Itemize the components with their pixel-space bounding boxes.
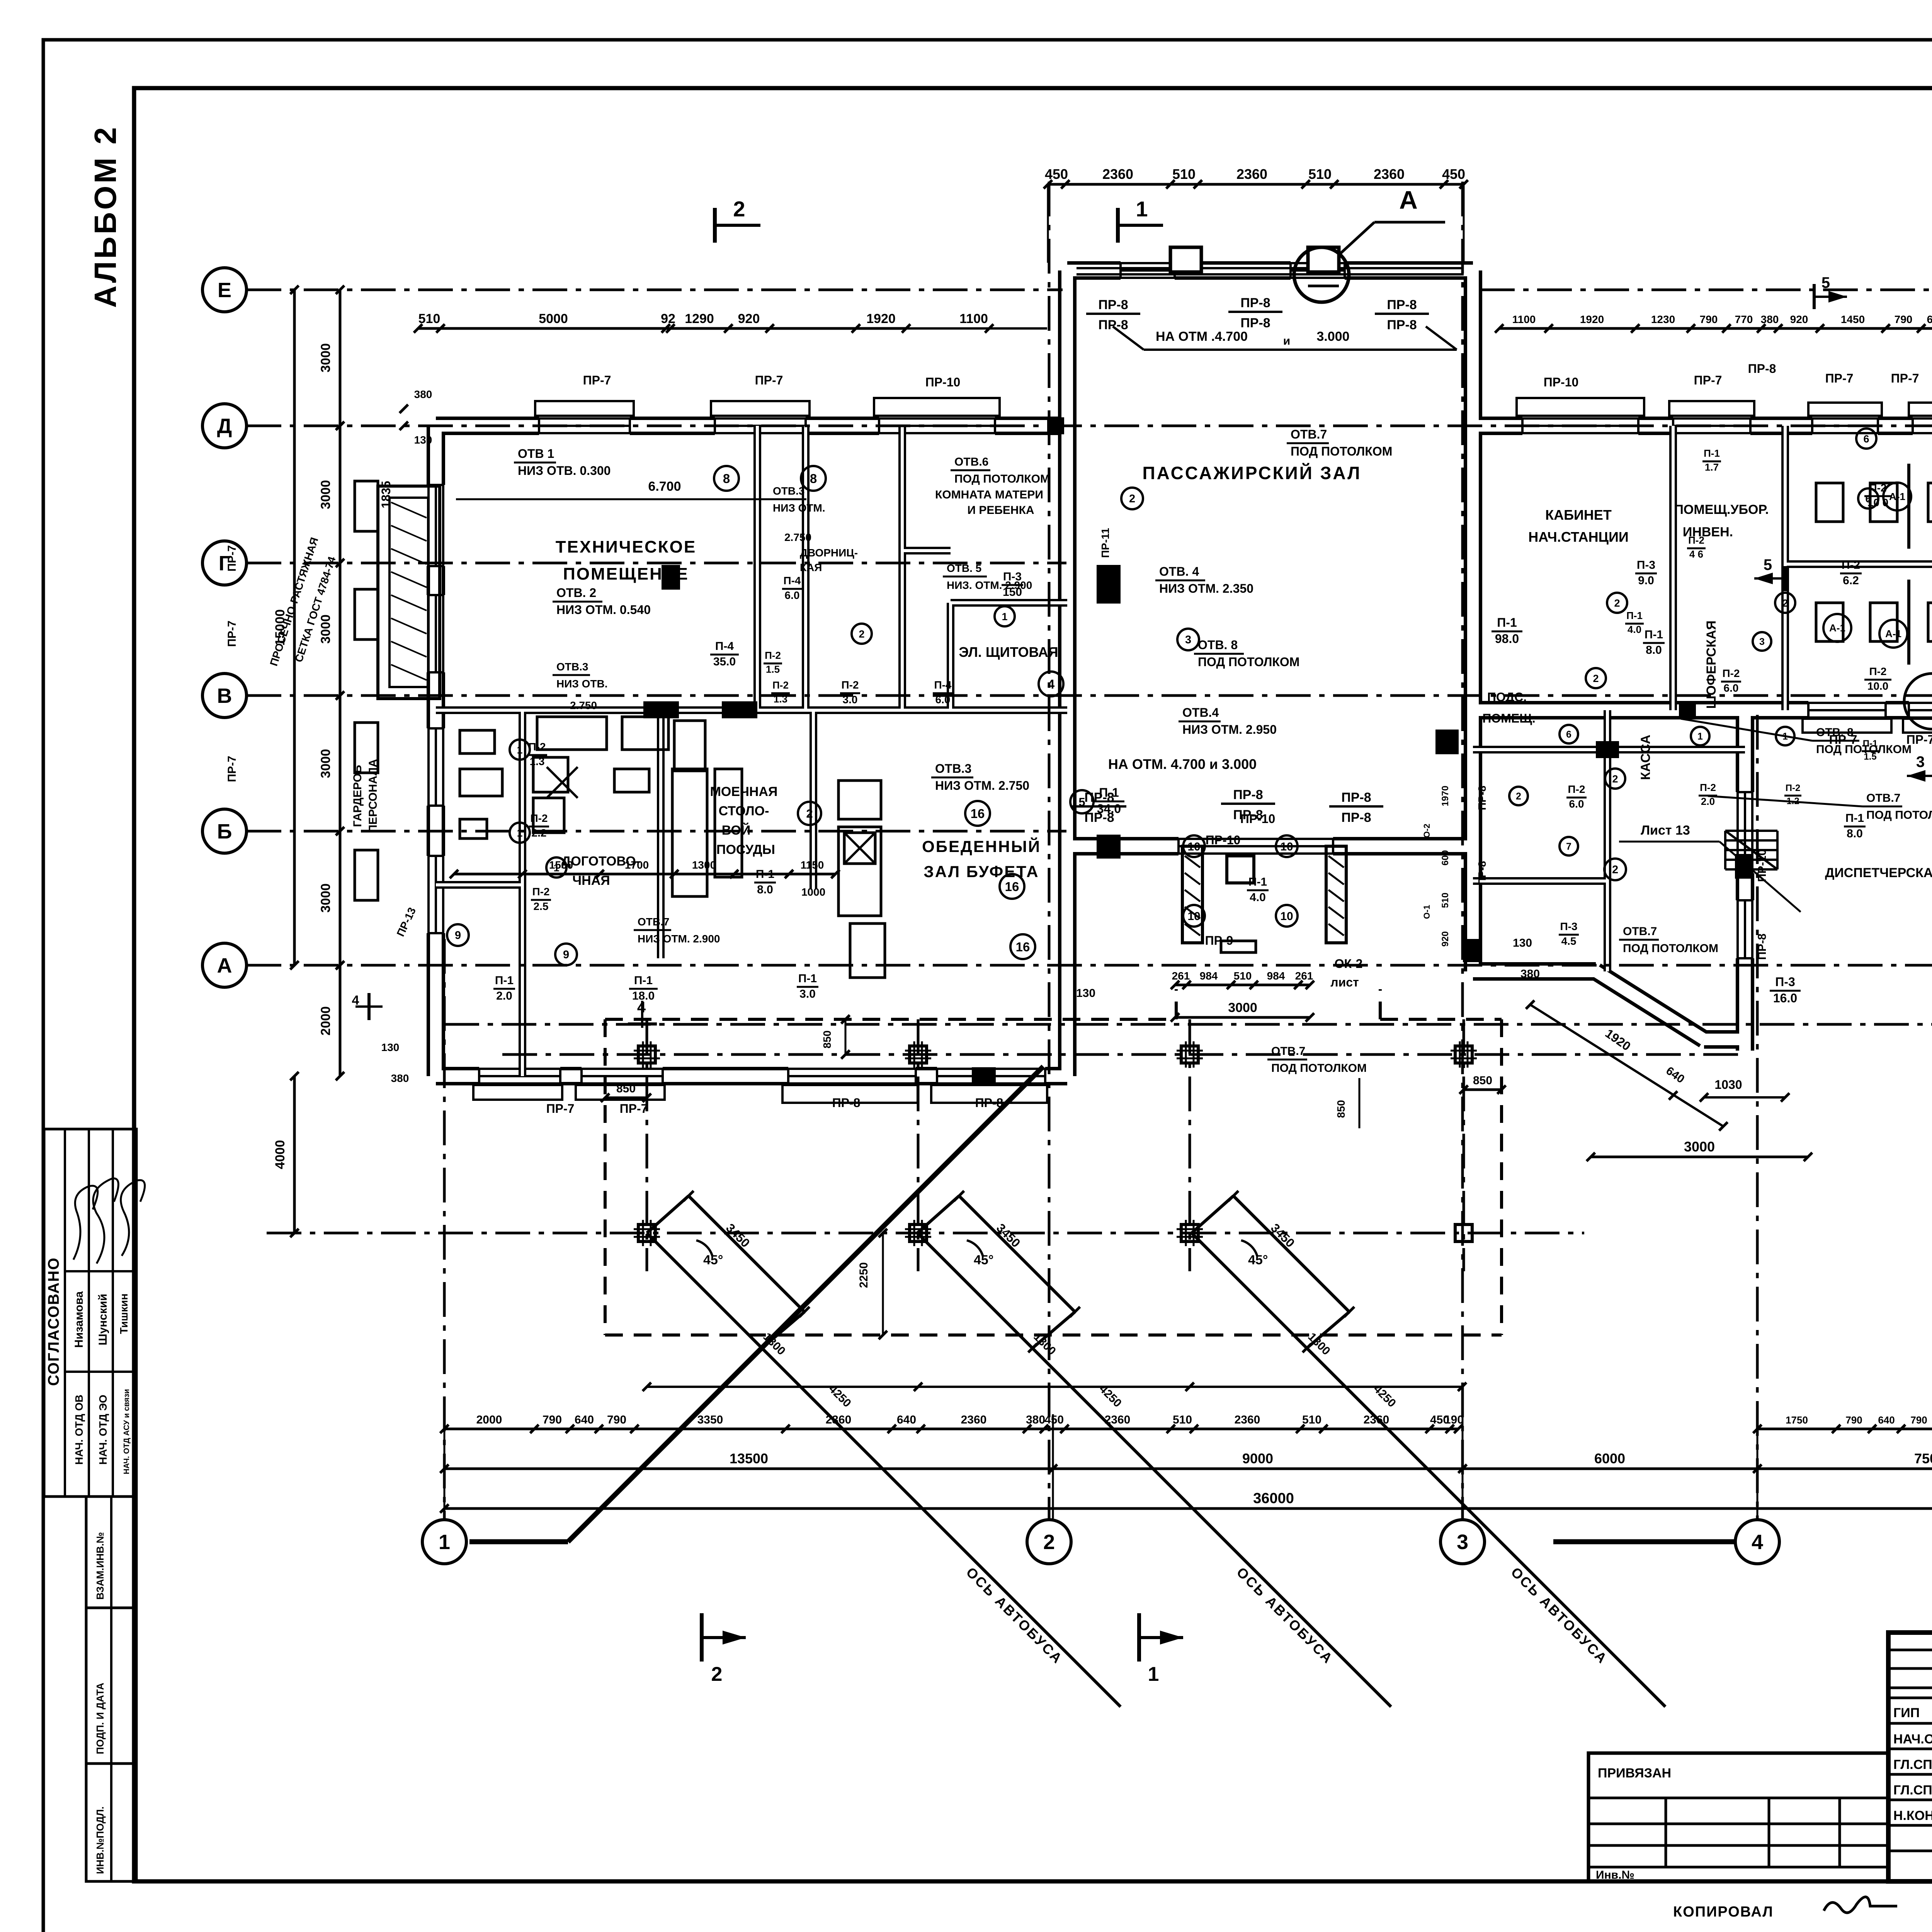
svg-text:П-1: П-1 <box>1863 738 1878 749</box>
svg-text:770: 770 <box>1735 313 1753 325</box>
svg-text:ПОМЕЩЕНИЕ: ПОМЕЩЕНИЕ <box>563 565 689 583</box>
svg-text:П-1: П-1 <box>1626 610 1643 621</box>
svg-text:ОТВ 1: ОТВ 1 <box>518 447 554 461</box>
svg-text:ПР-8: ПР-8 <box>1341 810 1371 825</box>
svg-text:ОТВ. 4: ОТВ. 4 <box>1159 565 1199 578</box>
svg-text:9: 9 <box>455 929 461 942</box>
svg-text:2: 2 <box>1593 673 1599 684</box>
svg-text:П-2: П-2 <box>765 650 781 661</box>
svg-text:7: 7 <box>1566 841 1571 852</box>
svg-text:ПР-7: ПР-7 <box>546 1102 575 1116</box>
svg-text:П-2: П-2 <box>1722 667 1740 679</box>
title block <box>1888 1633 1932 1881</box>
svg-text:450: 450 <box>1045 166 1068 182</box>
extension lines bottom <box>444 1414 446 1519</box>
svg-text:15000: 15000 <box>273 609 287 646</box>
svg-text:ОТВ.7: ОТВ.7 <box>1866 792 1900 804</box>
svg-text:А: А <box>1399 185 1418 214</box>
axis line А <box>247 964 1932 967</box>
svg-text:П-3: П-3 <box>1637 559 1655 571</box>
svg-text:Б: Б <box>217 820 232 843</box>
svg-text:ОТВ. 8: ОТВ. 8 <box>1198 638 1238 652</box>
svg-text:640: 640 <box>897 1413 916 1426</box>
svg-text:13500: 13500 <box>730 1451 768 1466</box>
svg-text:4: 4 <box>1048 677 1055 691</box>
svg-text:А-1: А-1 <box>1889 491 1905 502</box>
svg-text:ОТВ.7: ОТВ.7 <box>1291 427 1327 441</box>
svg-text:1: 1 <box>1697 731 1703 742</box>
bottom right small dims <box>1757 1428 1932 1430</box>
svg-text:1450: 1450 <box>1841 313 1865 325</box>
svg-text:1300: 1300 <box>692 859 716 871</box>
svg-text:640: 640 <box>575 1413 594 1426</box>
partition lines <box>436 426 1932 1076</box>
svg-text:ПР-8: ПР-8 <box>1756 934 1769 960</box>
svg-text:ПОД ПОТОЛКОМ: ПОД ПОТОЛКОМ <box>1623 942 1718 955</box>
axis line 1 vertical <box>443 939 446 1520</box>
svg-text:9000: 9000 <box>1242 1451 1273 1466</box>
svg-text:4000: 4000 <box>273 1140 287 1169</box>
svg-text:450: 450 <box>1442 166 1465 182</box>
axis line 2 vertical <box>1048 182 1051 1520</box>
svg-text:ГЛ.СПЕЦ.: ГЛ.СПЕЦ. <box>1893 1783 1932 1798</box>
svg-text:920: 920 <box>1790 313 1808 325</box>
svg-text:1: 1 <box>517 744 522 756</box>
svg-text:П-2: П-2 <box>1842 559 1860 571</box>
svg-text:10: 10 <box>1280 910 1293 923</box>
svg-text:Е: Е <box>218 279 231 302</box>
svg-text:НАЧ. ОТД АСУ и связи: НАЧ. ОТД АСУ и связи <box>122 1389 131 1475</box>
svg-text:2.5: 2.5 <box>534 900 549 912</box>
svg-text:КОПИРОВАЛ: КОПИРОВАЛ <box>1673 1904 1774 1920</box>
svg-text:П-3: П-3 <box>1003 570 1022 583</box>
canopy column axes <box>502 1053 1739 1056</box>
svg-text:6.0: 6.0 <box>935 694 951 706</box>
window openings <box>539 415 630 436</box>
svg-text:1920: 1920 <box>1580 313 1604 325</box>
svg-text:4 6: 4 6 <box>1689 548 1703 560</box>
svg-text:2.750: 2.750 <box>784 531 811 543</box>
upper dimension row right part <box>1499 327 1932 330</box>
svg-text:Д: Д <box>217 415 232 438</box>
svg-text:2.2: 2.2 <box>532 827 547 839</box>
svg-text:1030: 1030 <box>1714 1078 1742 1092</box>
svg-text:ПР-8: ПР-8 <box>1476 861 1488 886</box>
svg-text:380: 380 <box>414 388 432 400</box>
svg-text:6.2: 6.2 <box>1843 574 1859 587</box>
svg-text:1.5: 1.5 <box>1864 752 1876 762</box>
svg-text:1.7: 1.7 <box>1705 461 1719 473</box>
svg-text:П-2: П-2 <box>530 812 548 824</box>
svg-text:850: 850 <box>616 1082 636 1095</box>
svg-text:4.5: 4.5 <box>1561 935 1577 947</box>
svg-text:ОТВ. 2: ОТВ. 2 <box>556 586 596 600</box>
svg-text:130: 130 <box>381 1041 400 1053</box>
section mark 1 top <box>1116 208 1120 243</box>
svg-text:2: 2 <box>711 1663 723 1685</box>
svg-text:ОТВ.3: ОТВ.3 <box>773 485 804 497</box>
svg-text:1: 1 <box>439 1531 450 1554</box>
svg-text:ПР-10: ПР-10 <box>1756 849 1769 882</box>
svg-text:6000: 6000 <box>1594 1451 1625 1466</box>
svg-text:ПР-8: ПР-8 <box>1240 316 1270 330</box>
svg-text:П-1: П-1 <box>1497 616 1517 629</box>
bus bay 2 <box>959 1196 1075 1312</box>
section marks bottom <box>700 1613 704 1662</box>
svg-text:2.0: 2.0 <box>1701 796 1715 807</box>
porch door bumps <box>1170 247 1201 272</box>
axis circles left <box>202 268 247 312</box>
svg-text:ПР-7: ПР-7 <box>620 1102 648 1116</box>
mid dim row in dining area <box>454 873 835 876</box>
взам.инв.№ box <box>86 1497 136 1608</box>
svg-text:790: 790 <box>1845 1414 1862 1426</box>
svg-text:ПР-7: ПР-7 <box>1891 371 1919 385</box>
svg-text:2360: 2360 <box>1235 1413 1260 1426</box>
svg-text:5: 5 <box>1821 274 1830 291</box>
svg-text:7500: 7500 <box>1914 1451 1932 1466</box>
svg-text:НИЗ ОТВ.: НИЗ ОТВ. <box>556 678 608 690</box>
svg-text:П-1: П-1 <box>1845 812 1864 825</box>
axis line А-prime <box>444 1023 1932 1026</box>
detail callout circle А top <box>1294 247 1349 302</box>
bottom dimension rows <box>444 1428 1458 1430</box>
svg-text:ОТВ.7: ОТВ.7 <box>638 916 669 928</box>
axis circles bottom 1-5 <box>422 1520 466 1564</box>
svg-text:ОК-2: ОК-2 <box>1335 957 1363 971</box>
svg-text:510: 510 <box>1440 893 1451 908</box>
svg-text:ПОДП. И ДАТА: ПОДП. И ДАТА <box>94 1683 106 1754</box>
svg-text:ПОМЕЩ.: ПОМЕЩ. <box>1482 711 1535 725</box>
svg-text:П-4: П-4 <box>715 640 734 653</box>
svg-text:КАЯ: КАЯ <box>800 561 822 573</box>
svg-text:2.0: 2.0 <box>496 990 512 1002</box>
svg-text:4.0: 4.0 <box>1628 624 1641 635</box>
svg-text:ГЛ.СПЕЦ.: ГЛ.СПЕЦ. <box>1893 1757 1932 1772</box>
svg-text:ПР-7: ПР-7 <box>755 373 783 387</box>
svg-text:8: 8 <box>723 471 730 486</box>
svg-text:3000: 3000 <box>1684 1139 1715 1155</box>
svg-text:ПР-10: ПР-10 <box>925 375 961 389</box>
svg-text:920: 920 <box>738 311 760 326</box>
svg-text:1100: 1100 <box>1512 313 1536 325</box>
svg-text:НАЧ.ОТД.: НАЧ.ОТД. <box>1893 1732 1932 1747</box>
svg-text:П-2: П-2 <box>528 741 546 753</box>
svg-text:ВОЙ: ВОЙ <box>722 823 751 838</box>
svg-text:ПЕРСОНАЛА: ПЕРСОНАЛА <box>367 759 379 833</box>
top dimension row over hall <box>1048 183 1464 186</box>
thick connectors to circles 1 and 4 <box>469 1539 568 1544</box>
canopy columns <box>638 1046 655 1063</box>
svg-text:П-2: П-2 <box>772 679 789 691</box>
svg-text:1.3: 1.3 <box>530 755 545 767</box>
svg-text:Лист 13: Лист 13 <box>1641 823 1690 838</box>
svg-text:ПР-8: ПР-8 <box>1476 786 1488 810</box>
привязан table <box>1588 1753 1888 1881</box>
svg-text:984: 984 <box>1200 970 1218 982</box>
svg-text:КОМНАТА МАТЕРИ: КОМНАТА МАТЕРИ <box>935 488 1043 501</box>
svg-text:2: 2 <box>1614 597 1620 609</box>
svg-text:510: 510 <box>1172 166 1196 182</box>
svg-text:1150: 1150 <box>801 859 824 871</box>
svg-text:ДИСПЕТЧЕРСКАЯ: ДИСПЕТЧЕРСКАЯ <box>1825 866 1932 880</box>
svg-text:6.0: 6.0 <box>1569 798 1584 810</box>
svg-text:и: и <box>1283 335 1290 347</box>
svg-text:34.0: 34.0 <box>1097 802 1121 816</box>
mesh enclosure on left wall <box>378 486 440 699</box>
svg-text:36000: 36000 <box>1253 1490 1294 1507</box>
svg-text:4.0: 4.0 <box>1250 891 1266 904</box>
svg-text:НИЗ ОТМ. 2.350: НИЗ ОТМ. 2.350 <box>1159 582 1253 595</box>
svg-text:ЭЛ. ЩИТОВАЯ: ЭЛ. ЩИТОВАЯ <box>959 644 1058 660</box>
upper dimension row left part <box>418 327 906 330</box>
column tick row under canopy <box>647 1386 1464 1388</box>
svg-text:ПОСУДЫ: ПОСУДЫ <box>716 842 775 857</box>
svg-text:СТОЛО-: СТОЛО- <box>719 804 769 818</box>
solid wall marks <box>1097 565 1121 604</box>
svg-text:510: 510 <box>418 311 440 326</box>
svg-text:130: 130 <box>1513 937 1532 949</box>
svg-text:640: 640 <box>1927 313 1932 325</box>
svg-text:850: 850 <box>1335 1100 1347 1118</box>
svg-text:8: 8 <box>810 471 817 486</box>
svg-text:П-2: П-2 <box>1568 783 1585 795</box>
svg-text:ПР-8: ПР-8 <box>1098 298 1128 312</box>
svg-text:3000: 3000 <box>318 343 333 372</box>
svg-text:3000: 3000 <box>318 614 333 644</box>
svg-text:16: 16 <box>1016 940 1030 954</box>
svg-text:Н.КОНТР.: Н.КОНТР. <box>1893 1808 1932 1823</box>
svg-text:КАССА: КАССА <box>1638 735 1653 780</box>
svg-text:ПР-7: ПР-7 <box>1694 373 1722 387</box>
svg-text:О-2: О-2 <box>1422 824 1432 838</box>
svg-text:ПР-11: ПР-11 <box>1099 528 1111 558</box>
svg-text:3000: 3000 <box>318 749 333 778</box>
svg-text:лист: лист <box>1330 975 1359 989</box>
svg-text:5: 5 <box>1764 556 1772 573</box>
svg-text:3.0: 3.0 <box>843 694 858 706</box>
svg-text:2360: 2360 <box>1236 166 1267 182</box>
svg-text:2360: 2360 <box>961 1413 987 1426</box>
svg-text:О-1: О-1 <box>1422 905 1432 919</box>
svg-text:ПР-8: ПР-8 <box>1233 787 1263 802</box>
svg-text:130: 130 <box>1076 987 1095 1000</box>
svg-text:1.2: 1.2 <box>1786 796 1799 806</box>
svg-text:П-2: П-2 <box>532 886 549 898</box>
svg-text:1: 1 <box>1136 197 1148 221</box>
svg-text:П-1: П-1 <box>1099 786 1119 799</box>
svg-text:ПР-7: ПР-7 <box>1825 371 1854 385</box>
svg-text:3000: 3000 <box>318 480 333 509</box>
svg-text:П-2: П-2 <box>1688 534 1704 546</box>
svg-text:790: 790 <box>607 1413 626 1426</box>
svg-text:1000: 1000 <box>801 886 825 898</box>
svg-text:2360: 2360 <box>1102 166 1133 182</box>
svg-text:Шунский: Шунский <box>97 1294 109 1345</box>
axis line Б <box>247 830 1066 833</box>
svg-text:2: 2 <box>1043 1531 1055 1554</box>
signature squiggles <box>73 1186 98 1260</box>
svg-text:2: 2 <box>1129 493 1135 505</box>
svg-text:СОГЛАСОВАНО: СОГЛАСОВАНО <box>45 1257 62 1386</box>
entrance small dims <box>1175 984 1310 986</box>
svg-text:ПР-8: ПР-8 <box>1387 318 1417 332</box>
svg-text:10.0: 10.0 <box>1867 680 1889 692</box>
svg-text:8.0: 8.0 <box>1847 827 1863 840</box>
svg-text:2: 2 <box>1782 597 1788 609</box>
axis line 4 vertical <box>1756 715 1759 1520</box>
svg-text:И РЕБЕНКА: И РЕБЕНКА <box>967 504 1034 517</box>
svg-text:2: 2 <box>733 197 745 221</box>
svg-text:380: 380 <box>1520 968 1540 980</box>
svg-text:261: 261 <box>1295 970 1313 982</box>
svg-text:261: 261 <box>1172 970 1190 982</box>
svg-text:НИЗ ОТМ. 2.950: НИЗ ОТМ. 2.950 <box>1182 723 1277 736</box>
svg-text:ПР-8: ПР-8 <box>1233 808 1263 822</box>
svg-text:П-4: П-4 <box>934 679 951 691</box>
svg-text:ТЕХНИЧЕСКОЕ: ТЕХНИЧЕСКОЕ <box>556 537 696 556</box>
svg-text:НА ОТМ. 4.700 и 3.000: НА ОТМ. 4.700 и 3.000 <box>1108 756 1257 772</box>
svg-text:НАЧ.СТАНЦИИ: НАЧ.СТАНЦИИ <box>1528 529 1628 545</box>
svg-text:1970: 1970 <box>1440 786 1451 806</box>
svg-text:ЧНАЯ: ЧНАЯ <box>572 873 610 888</box>
svg-text:НАЧ. ОТД ОВ: НАЧ. ОТД ОВ <box>73 1395 85 1464</box>
svg-text:8.0: 8.0 <box>1646 644 1662 656</box>
svg-text:3.000: 3.000 <box>1316 329 1349 344</box>
svg-text:ОТВ.3: ОТВ.3 <box>935 762 971 776</box>
согласовано signature table <box>44 1129 136 1497</box>
svg-text:П-4: П-4 <box>783 575 801 587</box>
svg-text:380: 380 <box>391 1072 409 1084</box>
canopy dashed outline <box>605 1018 1176 1021</box>
svg-text:ОТВ.7: ОТВ.7 <box>1623 925 1657 938</box>
svg-text:ПР-8: ПР-8 <box>1387 298 1417 312</box>
svg-text:16: 16 <box>1005 879 1019 894</box>
svg-text:Низамова: Низамова <box>73 1291 85 1348</box>
svg-text:П-1: П-1 <box>1704 447 1720 459</box>
svg-text:ПР-7: ПР-7 <box>226 621 238 647</box>
svg-text:НИЗ ОТМ.: НИЗ ОТМ. <box>773 502 825 514</box>
toilet stalls <box>1907 464 1910 549</box>
section mark 2 top <box>713 208 717 243</box>
svg-text:16: 16 <box>971 806 985 821</box>
svg-text:2000: 2000 <box>318 1006 333 1036</box>
svg-text:ПОД ПОТОЛКОМ: ПОД ПОТОЛКОМ <box>1291 444 1392 458</box>
svg-text:ПР-7: ПР-7 <box>226 756 238 782</box>
svg-text:КАБИНЕТ: КАБИНЕТ <box>1545 507 1612 523</box>
section flags 5 and 3 <box>1813 284 1816 309</box>
svg-text:П-1: П-1 <box>1248 876 1267 888</box>
svg-text:6.0: 6.0 <box>785 589 800 601</box>
svg-text:2: 2 <box>1516 791 1521 802</box>
svg-text:ОТВ. 5: ОТВ. 5 <box>947 562 981 574</box>
svg-text:П-2: П-2 <box>1869 665 1886 677</box>
svg-text:1750: 1750 <box>1786 1414 1808 1426</box>
svg-text:640: 640 <box>1878 1414 1895 1426</box>
svg-text:В: В <box>217 684 232 707</box>
svg-text:ПАССАЖИРСКИЙ ЗАЛ: ПАССАЖИРСКИЙ ЗАЛ <box>1143 463 1362 483</box>
svg-text:П-2: П-2 <box>841 679 859 691</box>
svg-text:3: 3 <box>1457 1531 1468 1554</box>
svg-text:510: 510 <box>1234 970 1252 982</box>
svg-text:ПР-10: ПР-10 <box>1206 833 1241 847</box>
svg-text:6: 6 <box>1863 433 1869 445</box>
canopy dims 850 <box>605 1097 647 1099</box>
exterior walls (double line) <box>436 270 1932 1076</box>
svg-text:ОБЕДЕННЫЙ: ОБЕДЕННЫЙ <box>922 837 1041 855</box>
svg-text:1: 1 <box>1002 611 1007 622</box>
svg-text:510: 510 <box>1173 1413 1192 1426</box>
svg-text:98.0: 98.0 <box>1495 632 1519 646</box>
svg-text:ПР-8: ПР-8 <box>1098 318 1128 332</box>
svg-text:510: 510 <box>1302 1413 1321 1426</box>
svg-text:ПОДС.: ПОДС. <box>1487 690 1527 704</box>
svg-text:1835: 1835 <box>379 481 393 508</box>
svg-text:510: 510 <box>1308 166 1332 182</box>
svg-text:5000: 5000 <box>539 311 568 326</box>
svg-text:3000: 3000 <box>318 883 333 913</box>
svg-text:1500: 1500 <box>549 859 573 871</box>
svg-text:3350: 3350 <box>697 1413 723 1426</box>
svg-text:НА ОТМ .4.700: НА ОТМ .4.700 <box>1156 329 1248 344</box>
svg-text:П-1: П-1 <box>495 974 514 987</box>
svg-text:ПОД ПОТОЛКОМ: ПОД ПОТОЛКОМ <box>954 473 1050 485</box>
svg-text:4: 4 <box>1752 1531 1763 1554</box>
А-1 fixture circles <box>1883 483 1911 510</box>
инв.№подл. box <box>86 1764 136 1881</box>
svg-text:3: 3 <box>1916 753 1925 770</box>
svg-text:ОТВ. 8: ОТВ. 8 <box>1816 726 1854 739</box>
svg-text:35.0: 35.0 <box>713 655 736 668</box>
svg-text:ПР-7: ПР-7 <box>583 373 611 387</box>
svg-text:2250: 2250 <box>857 1262 870 1288</box>
svg-text:9.0: 9.0 <box>1638 574 1654 587</box>
svg-text:ПОД ПОТОЛКОМ: ПОД ПОТОЛКОМ <box>1271 1062 1367 1075</box>
svg-text:ОТВ.3: ОТВ.3 <box>556 661 588 673</box>
bus bay 3 <box>1233 1196 1349 1312</box>
left vertical dims <box>339 290 342 965</box>
svg-text:ДВОРНИЦ-: ДВОРНИЦ- <box>800 547 858 559</box>
svg-text:2: 2 <box>1612 773 1618 785</box>
svg-text:1.5: 1.5 <box>766 663 780 675</box>
svg-text:1290: 1290 <box>685 311 714 326</box>
svg-text:790: 790 <box>543 1413 562 1426</box>
svg-text:16.0: 16.0 <box>1773 991 1797 1005</box>
svg-text:ПОМЕЩ.УБОР.: ПОМЕЩ.УБОР. <box>1674 502 1769 517</box>
svg-text:3000: 3000 <box>1228 1000 1257 1015</box>
stair <box>1725 830 1777 832</box>
svg-text:130: 130 <box>414 434 432 446</box>
circled numbers <box>714 466 739 491</box>
svg-text:2.750: 2.750 <box>570 699 597 711</box>
svg-text:5: 5 <box>1078 795 1085 809</box>
svg-text:А-1: А-1 <box>1829 622 1845 634</box>
svg-text:П-1: П-1 <box>634 974 653 987</box>
svg-text:ПР-8: ПР-8 <box>1748 362 1776 376</box>
svg-text:1: 1 <box>517 827 522 839</box>
svg-text:10: 10 <box>1280 840 1293 853</box>
svg-text:2360: 2360 <box>1374 166 1405 182</box>
svg-text:ШОФЕРСКАЯ: ШОФЕРСКАЯ <box>1704 621 1719 709</box>
svg-text:6.700: 6.700 <box>648 479 681 494</box>
detail Б callout on plan <box>1904 673 1932 729</box>
svg-text:ОТВ.6: ОТВ.6 <box>954 456 988 468</box>
svg-text:Инв.№: Инв.№ <box>1596 1869 1634 1881</box>
svg-text:ПР-7: ПР-7 <box>226 545 238 571</box>
window sills <box>535 401 634 416</box>
svg-text:ВЗАМ.ИНВ.№: ВЗАМ.ИНВ.№ <box>94 1532 106 1600</box>
svg-text:92: 92 <box>661 311 675 326</box>
